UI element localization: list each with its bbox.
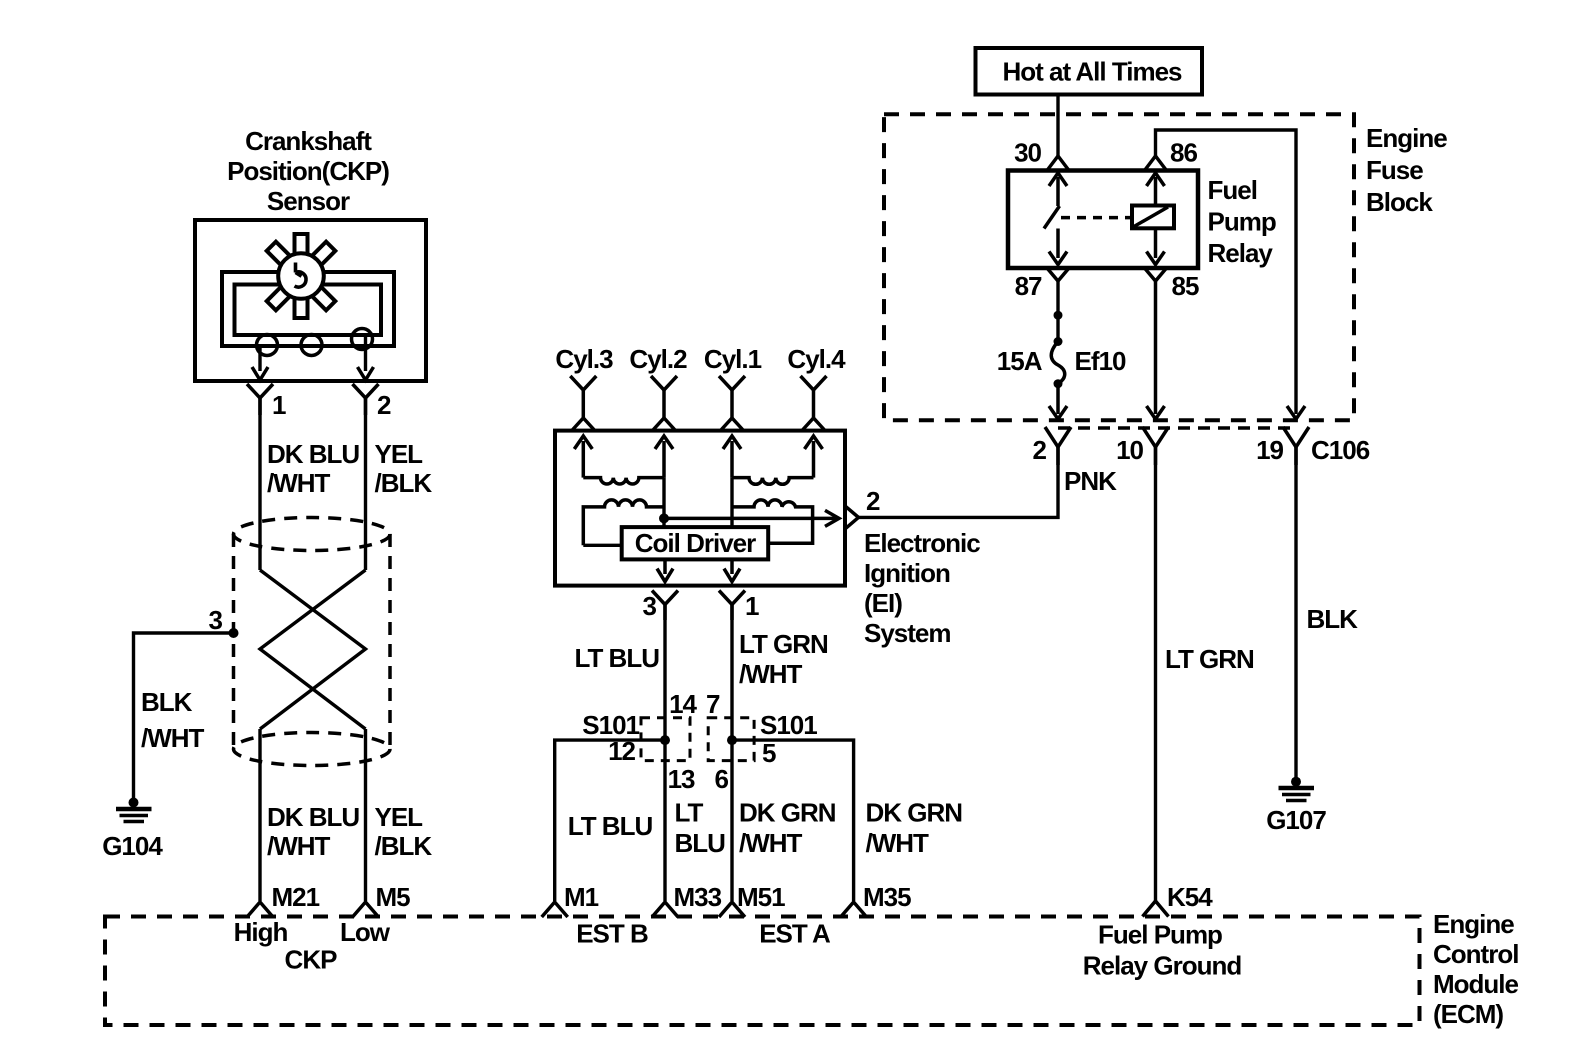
secondary arrow cyl3 (574, 436, 592, 478)
connector pin 2 C106 (1045, 427, 1071, 465)
wire LT GRN/WHT vertical (730, 605, 733, 741)
ECM dashed box (105, 917, 1420, 1026)
primary left to coil driver (583, 544, 621, 547)
CKP internal arrow pin1 (252, 367, 268, 380)
relay pin 86 chevron (1145, 156, 1167, 171)
relay actuation dashed link (1061, 216, 1132, 220)
secondary winding right (732, 478, 814, 485)
svg-text:Engine: Engine (1433, 909, 1514, 939)
connector pin 2 (353, 384, 379, 415)
svg-text:2: 2 (377, 390, 391, 420)
connector pin 1 (247, 384, 273, 415)
fuse Ef10 15A (1051, 311, 1065, 389)
connector pin 1 (719, 591, 745, 621)
svg-text:M33: M33 (674, 882, 722, 912)
wire 86 branch arrow (1287, 406, 1305, 419)
svg-text:10: 10 (1116, 435, 1143, 465)
svg-text:Coil Driver: Coil Driver (635, 528, 756, 558)
svg-text:3: 3 (643, 591, 657, 621)
svg-text:LT BLU: LT BLU (568, 811, 653, 841)
label Fuel Pump Relay (1208, 175, 1276, 268)
svg-text:BLU: BLU (675, 828, 726, 858)
node 3 junction dot (229, 628, 239, 638)
secondary arrow cyl4 (805, 436, 823, 478)
connector pin 3 (652, 591, 678, 621)
svg-text:/BLK: /BLK (375, 468, 433, 498)
label YEL /BLK (375, 439, 433, 498)
svg-text:G107: G107 (1266, 805, 1326, 835)
CKP reluctor wheel (278, 253, 324, 299)
svg-text:BLK: BLK (141, 687, 193, 717)
relay pin 87 chevron (1047, 268, 1069, 281)
svg-text:/BLK: /BLK (375, 831, 433, 861)
svg-text:YEL: YEL (375, 439, 424, 469)
relay switch common arrow (1049, 173, 1067, 206)
twisted pair shield top ellipse (234, 518, 391, 551)
CKP sensor title (227, 126, 389, 216)
wire PNK to EI (859, 447, 1059, 517)
relay coil arrow down (1147, 228, 1165, 264)
ECM pin M1 (542, 902, 568, 917)
connector Cyl.3 (570, 376, 596, 430)
svg-text:/WHT: /WHT (267, 831, 331, 861)
wire 86 up and over (1156, 130, 1297, 414)
twisted wire low (260, 570, 366, 729)
label LT GRN /WHT (739, 629, 828, 689)
relay pin 85 chevron (1145, 268, 1167, 281)
svg-text:Block: Block (1366, 187, 1433, 217)
svg-text:Cyl.4: Cyl.4 (787, 344, 846, 374)
svg-text:Fuel Pump: Fuel Pump (1098, 920, 1222, 950)
svg-text:1: 1 (272, 390, 286, 420)
relay pin 30 chevron (1047, 156, 1069, 171)
svg-text:C106: C106 (1311, 435, 1370, 465)
svg-text:(ECM): (ECM) (1433, 999, 1503, 1029)
secondary arrow cyl1 (723, 436, 741, 478)
label YEL /BLK lower (375, 802, 433, 861)
svg-text:30: 30 (1014, 138, 1041, 168)
connector pin 10 C106 (1143, 427, 1169, 465)
hot at all times box (976, 48, 1203, 95)
ECM pin M35 (841, 902, 867, 917)
connector pin 19 C106 (1283, 427, 1309, 465)
svg-text:Fuel: Fuel (1208, 175, 1257, 205)
svg-text:DK GRN: DK GRN (866, 798, 963, 828)
svg-text:85: 85 (1172, 271, 1199, 301)
splice S101 right box (708, 718, 754, 761)
svg-text:M35: M35 (863, 882, 911, 912)
svg-text:Cyl.3: Cyl.3 (555, 344, 613, 374)
CKP reluctor tooth lower-right (312, 287, 335, 310)
svg-text:Engine: Engine (1366, 123, 1447, 153)
wire battery feed (1056, 95, 1059, 156)
splice dot S101 left (660, 735, 670, 745)
wire BLK to G107 (1294, 447, 1297, 778)
CKP pickup inner loop (235, 285, 382, 336)
svg-text:DK GRN: DK GRN (739, 798, 836, 828)
svg-text:Pump: Pump (1208, 207, 1276, 237)
wire shield drain to ground (134, 633, 234, 800)
svg-text:3: 3 (209, 605, 223, 635)
svg-text:Cyl.2: Cyl.2 (629, 344, 687, 374)
svg-text:DK BLU: DK BLU (267, 439, 359, 469)
svg-text:Ef10: Ef10 (1075, 346, 1126, 376)
svg-text:/WHT: /WHT (141, 723, 205, 753)
primary winding left (583, 500, 664, 545)
splice dot S101 right (727, 735, 737, 745)
ignition coil module box (555, 431, 845, 586)
wire LT BLU vertical (663, 605, 666, 741)
svg-text:2: 2 (1033, 435, 1047, 465)
wire YEL/BLK upper (364, 398, 367, 570)
CKP internal wire pin2 (364, 335, 367, 371)
coil driver output wire 3 (657, 559, 673, 581)
label DK GRN /WHT M35 (866, 798, 963, 859)
ECM pin M21 (247, 902, 273, 917)
svg-text:M1: M1 (564, 882, 599, 912)
svg-text:M5: M5 (376, 882, 411, 912)
relay switch output arrow (1049, 229, 1067, 265)
svg-text:6: 6 (715, 764, 729, 794)
connector Cyl.1 (719, 376, 745, 430)
svg-text:2: 2 (866, 486, 880, 516)
coil driver U1 (622, 527, 769, 559)
junction dot pin2 (659, 513, 669, 523)
label DK BLU /WHT (267, 439, 359, 498)
svg-text:/WHT: /WHT (866, 828, 930, 858)
relay coil element (1132, 206, 1174, 229)
wire YEL/BLK lower (364, 729, 367, 901)
svg-text:DK BLU: DK BLU (267, 802, 359, 832)
ECM pin K54 (1143, 901, 1169, 917)
relay switch blade (1044, 206, 1060, 229)
label BLK /WHT (141, 687, 205, 753)
svg-text:Module: Module (1433, 969, 1519, 999)
svg-text:EST A: EST A (759, 919, 831, 949)
ECM pin M33 (652, 902, 678, 917)
twisted wire high (260, 570, 366, 729)
connector Cyl.4 (801, 376, 827, 430)
svg-text:Crankshaft: Crankshaft (245, 126, 372, 156)
label Electronic Ignition (EI) System (864, 528, 980, 648)
svg-text:86: 86 (1170, 138, 1197, 168)
engine fuse block dashed box (884, 114, 1354, 420)
ground G104 (116, 798, 152, 822)
secondary arrow cyl2 (655, 436, 673, 478)
wire DK BLU/WHT upper (258, 398, 261, 570)
CKP internal arrow pin2 (358, 367, 374, 380)
svg-text:Position(CKP): Position(CKP) (227, 156, 389, 186)
svg-text:19: 19 (1256, 435, 1283, 465)
svg-text:System: System (864, 618, 951, 648)
svg-text:PNK: PNK (1064, 466, 1117, 496)
svg-text:G104: G104 (102, 831, 163, 861)
wire LT GRN to K54 (1154, 447, 1157, 901)
wire 87 to fuse (1056, 281, 1059, 342)
svg-text:High: High (234, 917, 288, 947)
twisted pair shield bottom ellipse (234, 733, 391, 766)
label Engine Control Module (ECM) (1433, 909, 1519, 1029)
wire branch M35 (732, 740, 854, 901)
label DK BLU /WHT lower (267, 802, 359, 861)
CKP reluctor tooth top (295, 234, 308, 254)
fuel pump relay box (1008, 171, 1198, 269)
svg-text:/WHT: /WHT (267, 468, 331, 498)
ECM pin M51 (719, 902, 745, 917)
connector Cyl.2 (651, 376, 677, 430)
EI output chevron pin 2 (845, 506, 859, 529)
CKP reluctor tooth bottom (295, 298, 308, 318)
splice S101 left box (641, 718, 690, 761)
wire M33 (663, 740, 666, 901)
svg-text:LT: LT (675, 798, 704, 828)
twisted pair shield left side (232, 534, 236, 749)
svg-text:EST B: EST B (576, 919, 648, 949)
ground G107 (1279, 777, 1315, 801)
svg-text:K54: K54 (1167, 882, 1213, 912)
svg-text:87: 87 (1015, 271, 1042, 301)
CKP sensor box (195, 220, 426, 381)
svg-text:S101: S101 (760, 710, 817, 740)
wire M51 (730, 740, 733, 901)
svg-text:1: 1 (745, 591, 759, 621)
svg-text:Control: Control (1433, 939, 1518, 969)
wire DK BLU/WHT lower (258, 729, 261, 901)
CKP reluctor tooth upper-right (267, 242, 290, 265)
connector C106 dashed link (1058, 426, 1296, 430)
CKP pickup outer loop (222, 272, 394, 346)
svg-text:14: 14 (669, 689, 697, 719)
svg-text:LT BLU: LT BLU (575, 643, 660, 673)
svg-text:Relay Ground: Relay Ground (1083, 951, 1242, 981)
svg-text:Electronic: Electronic (864, 528, 980, 558)
svg-text:Low: Low (340, 917, 391, 947)
svg-text:15A: 15A (997, 346, 1043, 376)
label Engine Fuse Block (1366, 123, 1447, 217)
svg-text:13: 13 (668, 764, 695, 794)
svg-text:Ignition: Ignition (864, 558, 950, 588)
wire cyl1 down (730, 478, 733, 527)
svg-text:M51: M51 (737, 882, 785, 912)
svg-text:/WHT: /WHT (739, 828, 803, 858)
svg-text:Sensor: Sensor (267, 186, 350, 216)
svg-text:Hot at All Times: Hot at All Times (1002, 57, 1182, 87)
svg-text:BLK: BLK (1307, 604, 1359, 634)
CKP pickup coil loops (257, 329, 373, 356)
svg-text:M21: M21 (272, 882, 320, 912)
svg-text:7: 7 (706, 689, 720, 719)
wire 85 down arrow (1147, 281, 1165, 419)
CKP rotation arrow (295, 263, 307, 288)
twisted pair shield right side (388, 534, 392, 749)
label LT BLU M33 (675, 798, 726, 859)
CKP internal wire pin1 (258, 346, 261, 371)
svg-text:Relay: Relay (1208, 238, 1274, 268)
wire tach junction (662, 478, 665, 527)
tach output arrow (664, 510, 839, 526)
coil driver output wire 1 (724, 559, 740, 581)
ECM pin M5 (353, 902, 379, 917)
label Fuel Pump Relay Ground (1083, 920, 1242, 981)
svg-text:Fuse: Fuse (1366, 155, 1423, 185)
svg-text:/WHT: /WHT (739, 659, 803, 689)
svg-text:Cyl.1: Cyl.1 (704, 344, 762, 374)
CKP reluctor tooth lower-left (267, 287, 290, 310)
wire fuse to pin 2 arrow (1049, 384, 1067, 419)
wire branch M1 (555, 740, 665, 901)
label DK GRN /WHT M51 (739, 798, 836, 859)
svg-text:(EI): (EI) (864, 588, 902, 618)
svg-text:LT GRN: LT GRN (1165, 644, 1254, 674)
svg-text:5: 5 (762, 738, 776, 768)
svg-text:CKP: CKP (285, 945, 338, 975)
CKP reluctor tooth upper-left (312, 242, 335, 265)
secondary winding left (583, 478, 664, 484)
relay coil arrow up (1147, 173, 1165, 206)
svg-text:YEL: YEL (375, 802, 424, 832)
svg-text:LT GRN: LT GRN (739, 629, 828, 659)
primary winding right (732, 500, 813, 543)
